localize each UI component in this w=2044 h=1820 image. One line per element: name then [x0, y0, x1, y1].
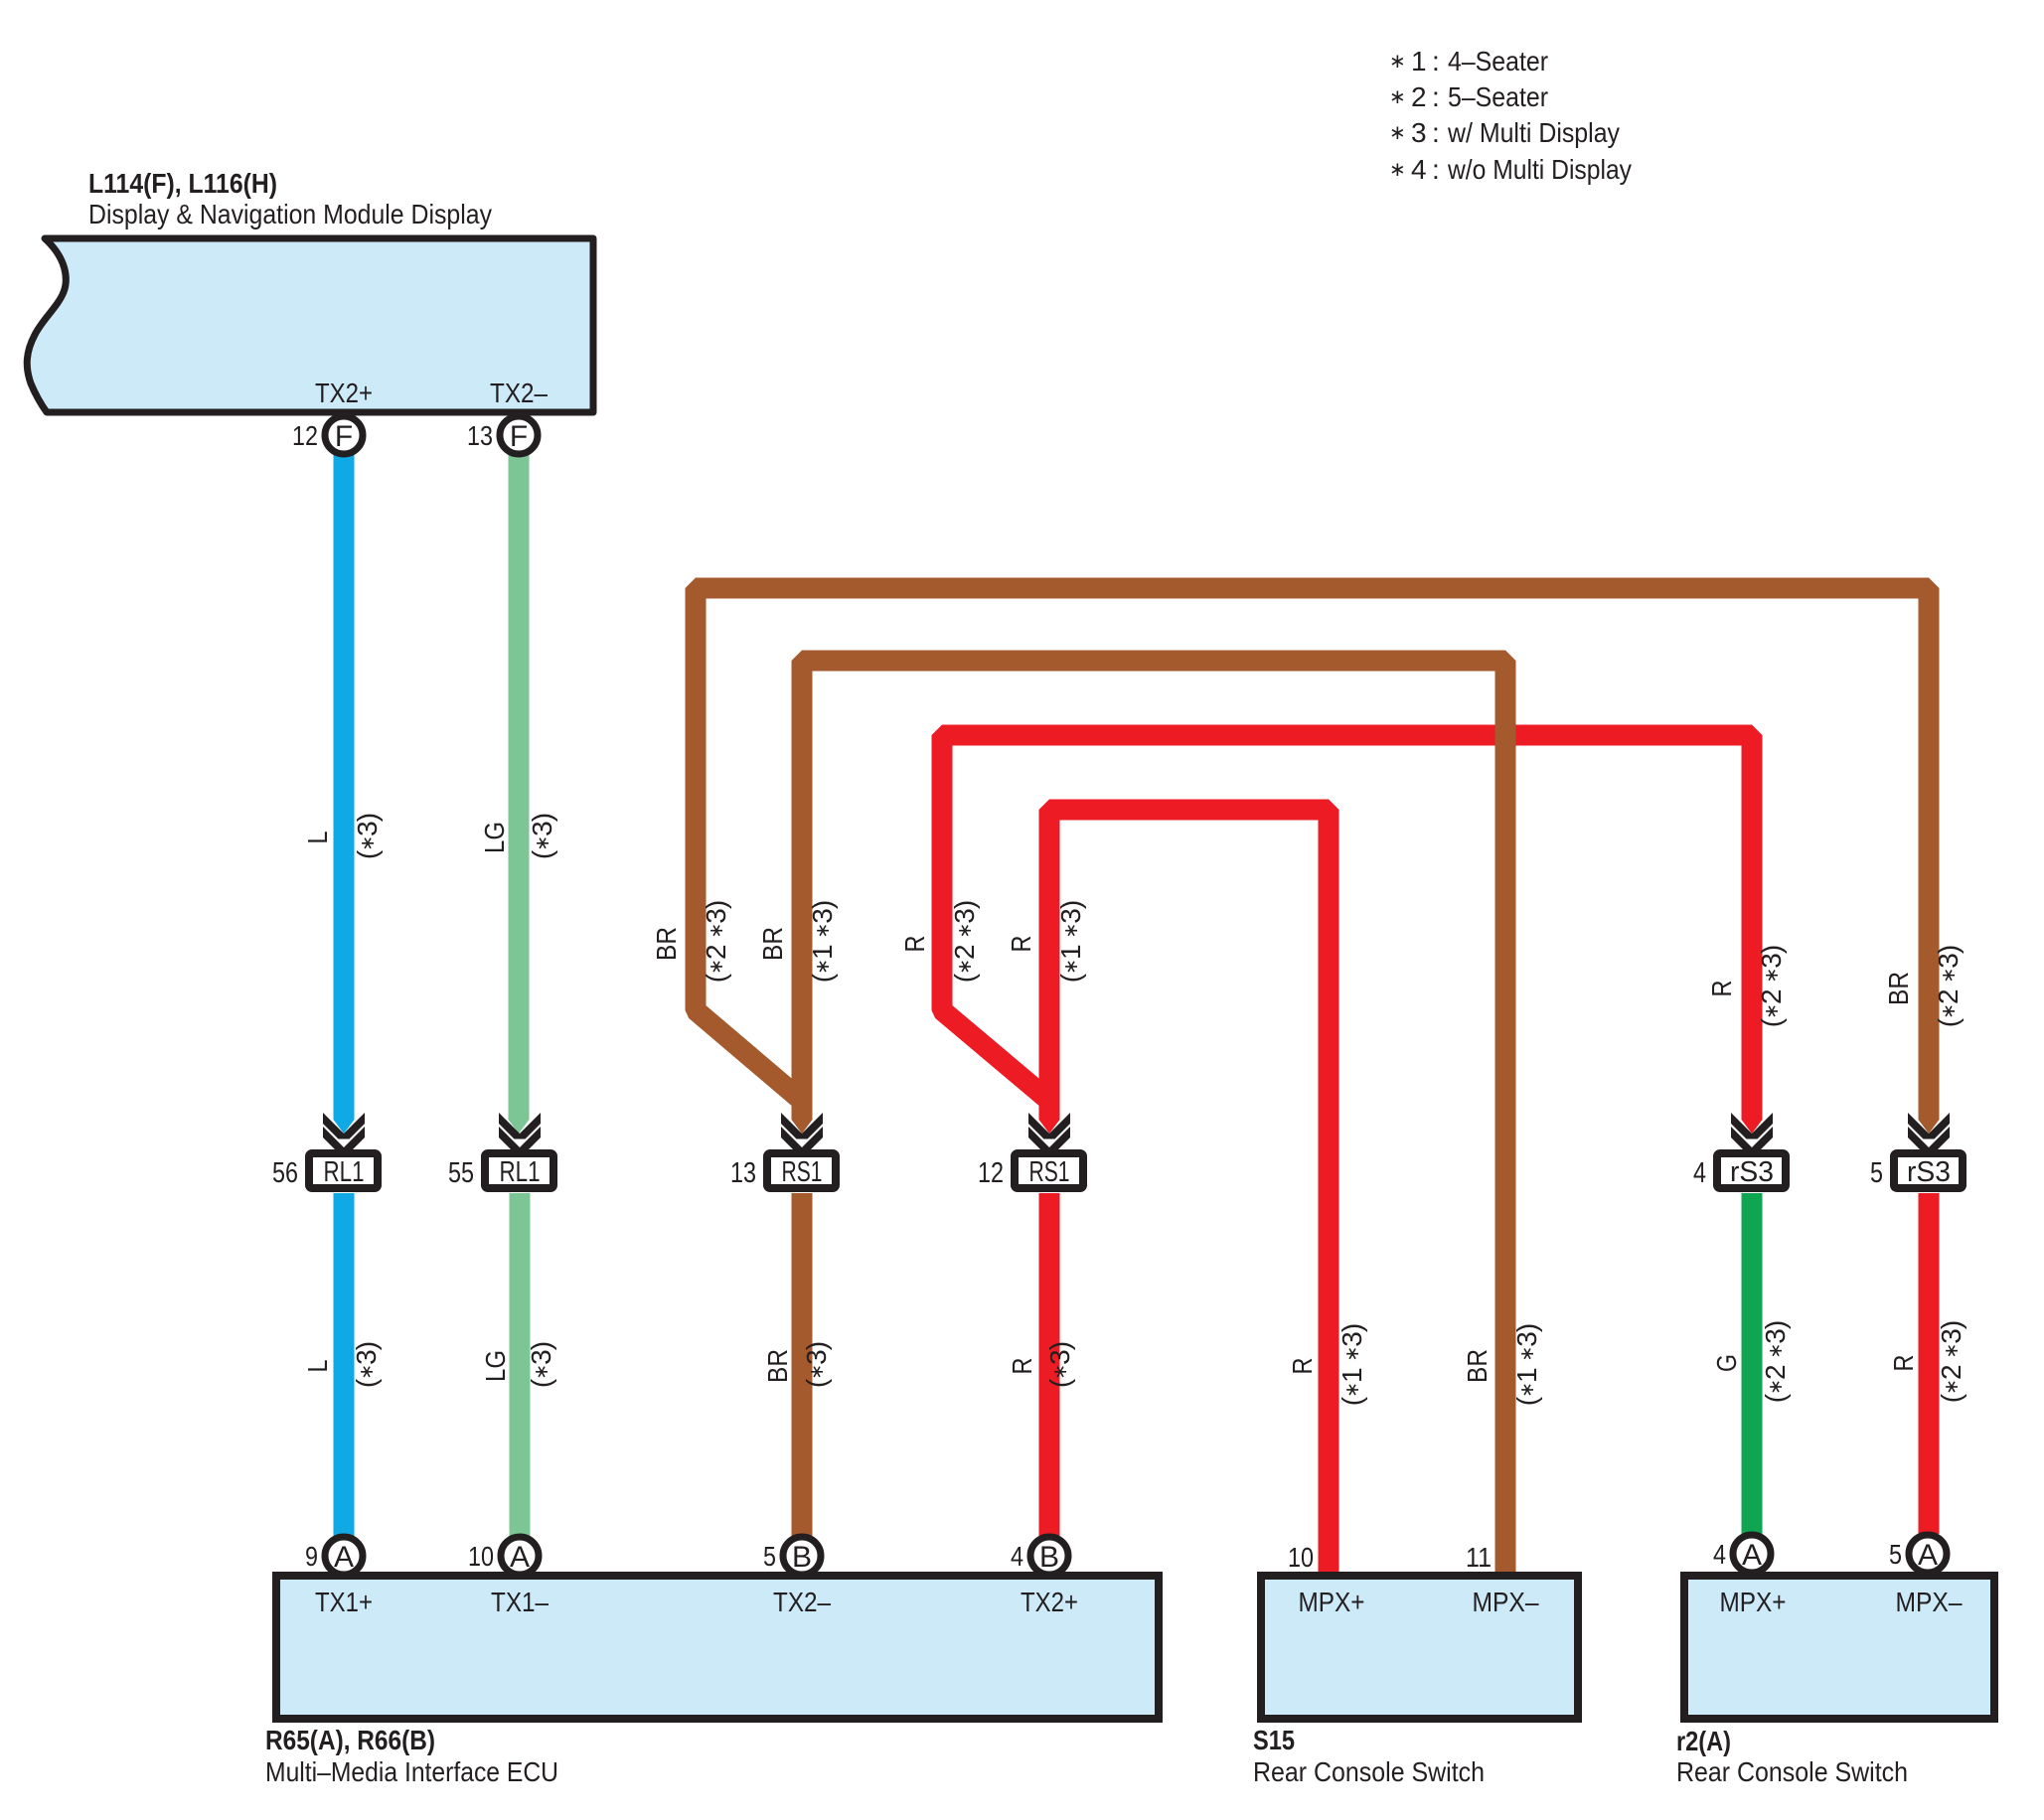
- svg-text:R: R: [1706, 981, 1737, 997]
- svg-text:w/o Multi Display: w/o Multi Display: [1447, 154, 1632, 185]
- svg-text:11: 11: [1466, 1542, 1492, 1573]
- svg-text:5–Seater: 5–Seater: [1448, 81, 1548, 112]
- svg-text:G: G: [1711, 1354, 1742, 1372]
- svg-text:F: F: [335, 420, 353, 453]
- svg-text:TX2–: TX2–: [773, 1587, 831, 1617]
- svg-text:TX2+: TX2+: [315, 378, 373, 408]
- svg-text:5: 5: [763, 1541, 776, 1572]
- svg-text:A: A: [1742, 1539, 1762, 1572]
- svg-text:3: 3: [1411, 117, 1427, 148]
- svg-text:TX2–: TX2–: [490, 378, 548, 408]
- svg-text:5: 5: [1889, 1539, 1902, 1570]
- svg-text:(∗3): (∗3): [527, 814, 557, 859]
- svg-text:w/ Multi Display: w/ Multi Display: [1447, 117, 1620, 148]
- svg-text:TX1+: TX1+: [315, 1587, 373, 1617]
- svg-text:12: 12: [978, 1157, 1004, 1189]
- svg-text:BR: BR: [1883, 972, 1914, 1005]
- svg-text:MPX–: MPX–: [1473, 1587, 1539, 1617]
- svg-text:L114(F), L116(H): L114(F), L116(H): [88, 168, 277, 199]
- svg-text:LG: LG: [479, 822, 510, 853]
- svg-text:RS1: RS1: [1029, 1156, 1070, 1188]
- svg-text:Multi–Media Interface ECU: Multi–Media Interface ECU: [265, 1756, 558, 1787]
- svg-text:∗: ∗: [1389, 86, 1406, 108]
- svg-text:B: B: [792, 1541, 812, 1574]
- svg-text:R: R: [1006, 936, 1036, 953]
- svg-text:4: 4: [1411, 154, 1427, 185]
- svg-text:13: 13: [730, 1157, 756, 1189]
- svg-text:F: F: [510, 420, 528, 453]
- svg-text:55: 55: [448, 1157, 474, 1189]
- svg-text:9: 9: [305, 1541, 318, 1572]
- svg-text:10: 10: [468, 1541, 494, 1572]
- svg-text:(∗3): (∗3): [352, 814, 383, 859]
- svg-text:RL1: RL1: [500, 1156, 541, 1188]
- svg-text:4: 4: [1011, 1541, 1023, 1572]
- svg-text:(∗3): (∗3): [351, 1342, 382, 1388]
- svg-text:MPX+: MPX+: [1720, 1587, 1787, 1617]
- svg-text:(∗3): (∗3): [526, 1342, 556, 1388]
- svg-text:rS3: rS3: [1730, 1156, 1774, 1188]
- svg-text:56: 56: [272, 1157, 298, 1189]
- svg-text:R: R: [899, 936, 930, 953]
- svg-text:TX2+: TX2+: [1021, 1587, 1078, 1617]
- svg-text:r2(A): r2(A): [1676, 1726, 1731, 1756]
- svg-text:R: R: [1287, 1358, 1318, 1375]
- svg-text:A: A: [334, 1541, 354, 1574]
- svg-text:Display & Navigation Module Di: Display & Navigation Module Display: [88, 199, 492, 229]
- svg-text:A: A: [1918, 1539, 1938, 1572]
- svg-text:4: 4: [1693, 1157, 1706, 1189]
- svg-text:rS3: rS3: [1907, 1156, 1951, 1188]
- svg-text:S15: S15: [1253, 1725, 1295, 1755]
- svg-text:B: B: [1039, 1541, 1059, 1574]
- svg-text:∗: ∗: [1389, 159, 1406, 181]
- svg-text::: :: [1432, 46, 1440, 76]
- svg-text:Rear Console Switch: Rear Console Switch: [1676, 1756, 1908, 1787]
- svg-text:MPX–: MPX–: [1896, 1587, 1963, 1617]
- svg-text:4–Seater: 4–Seater: [1448, 46, 1548, 76]
- svg-text:BR: BR: [757, 927, 788, 961]
- svg-text:BR: BR: [762, 1349, 793, 1383]
- svg-text:A: A: [510, 1541, 530, 1574]
- svg-text:R65(A), R66(B): R65(A), R66(B): [265, 1725, 435, 1755]
- svg-text::: :: [1432, 117, 1440, 148]
- svg-text:1: 1: [1411, 46, 1427, 76]
- svg-text:LG: LG: [480, 1350, 511, 1382]
- svg-text:Rear Console Switch: Rear Console Switch: [1253, 1756, 1485, 1787]
- svg-text:TX1–: TX1–: [491, 1587, 549, 1617]
- svg-text:13: 13: [467, 420, 493, 451]
- svg-text:∗: ∗: [1389, 51, 1406, 73]
- svg-text:2: 2: [1411, 81, 1427, 112]
- svg-text:L: L: [302, 832, 333, 844]
- svg-text:R: R: [1007, 1358, 1037, 1375]
- svg-text:BR: BR: [651, 927, 682, 961]
- svg-text:5: 5: [1870, 1157, 1883, 1189]
- svg-text:MPX+: MPX+: [1299, 1587, 1365, 1617]
- svg-text:BR: BR: [1462, 1349, 1493, 1383]
- svg-text::: :: [1432, 81, 1440, 112]
- svg-text:RS1: RS1: [782, 1156, 823, 1188]
- svg-text:(∗3): (∗3): [801, 1342, 832, 1388]
- svg-text:(∗3): (∗3): [1044, 1342, 1075, 1388]
- svg-text:∗: ∗: [1389, 122, 1406, 144]
- svg-text:10: 10: [1288, 1542, 1314, 1573]
- svg-text:R: R: [1888, 1355, 1919, 1372]
- svg-text:4: 4: [1713, 1539, 1726, 1570]
- svg-text:L: L: [302, 1360, 333, 1373]
- svg-text:12: 12: [292, 420, 318, 451]
- svg-text::: :: [1432, 154, 1440, 185]
- svg-text:RL1: RL1: [324, 1156, 365, 1188]
